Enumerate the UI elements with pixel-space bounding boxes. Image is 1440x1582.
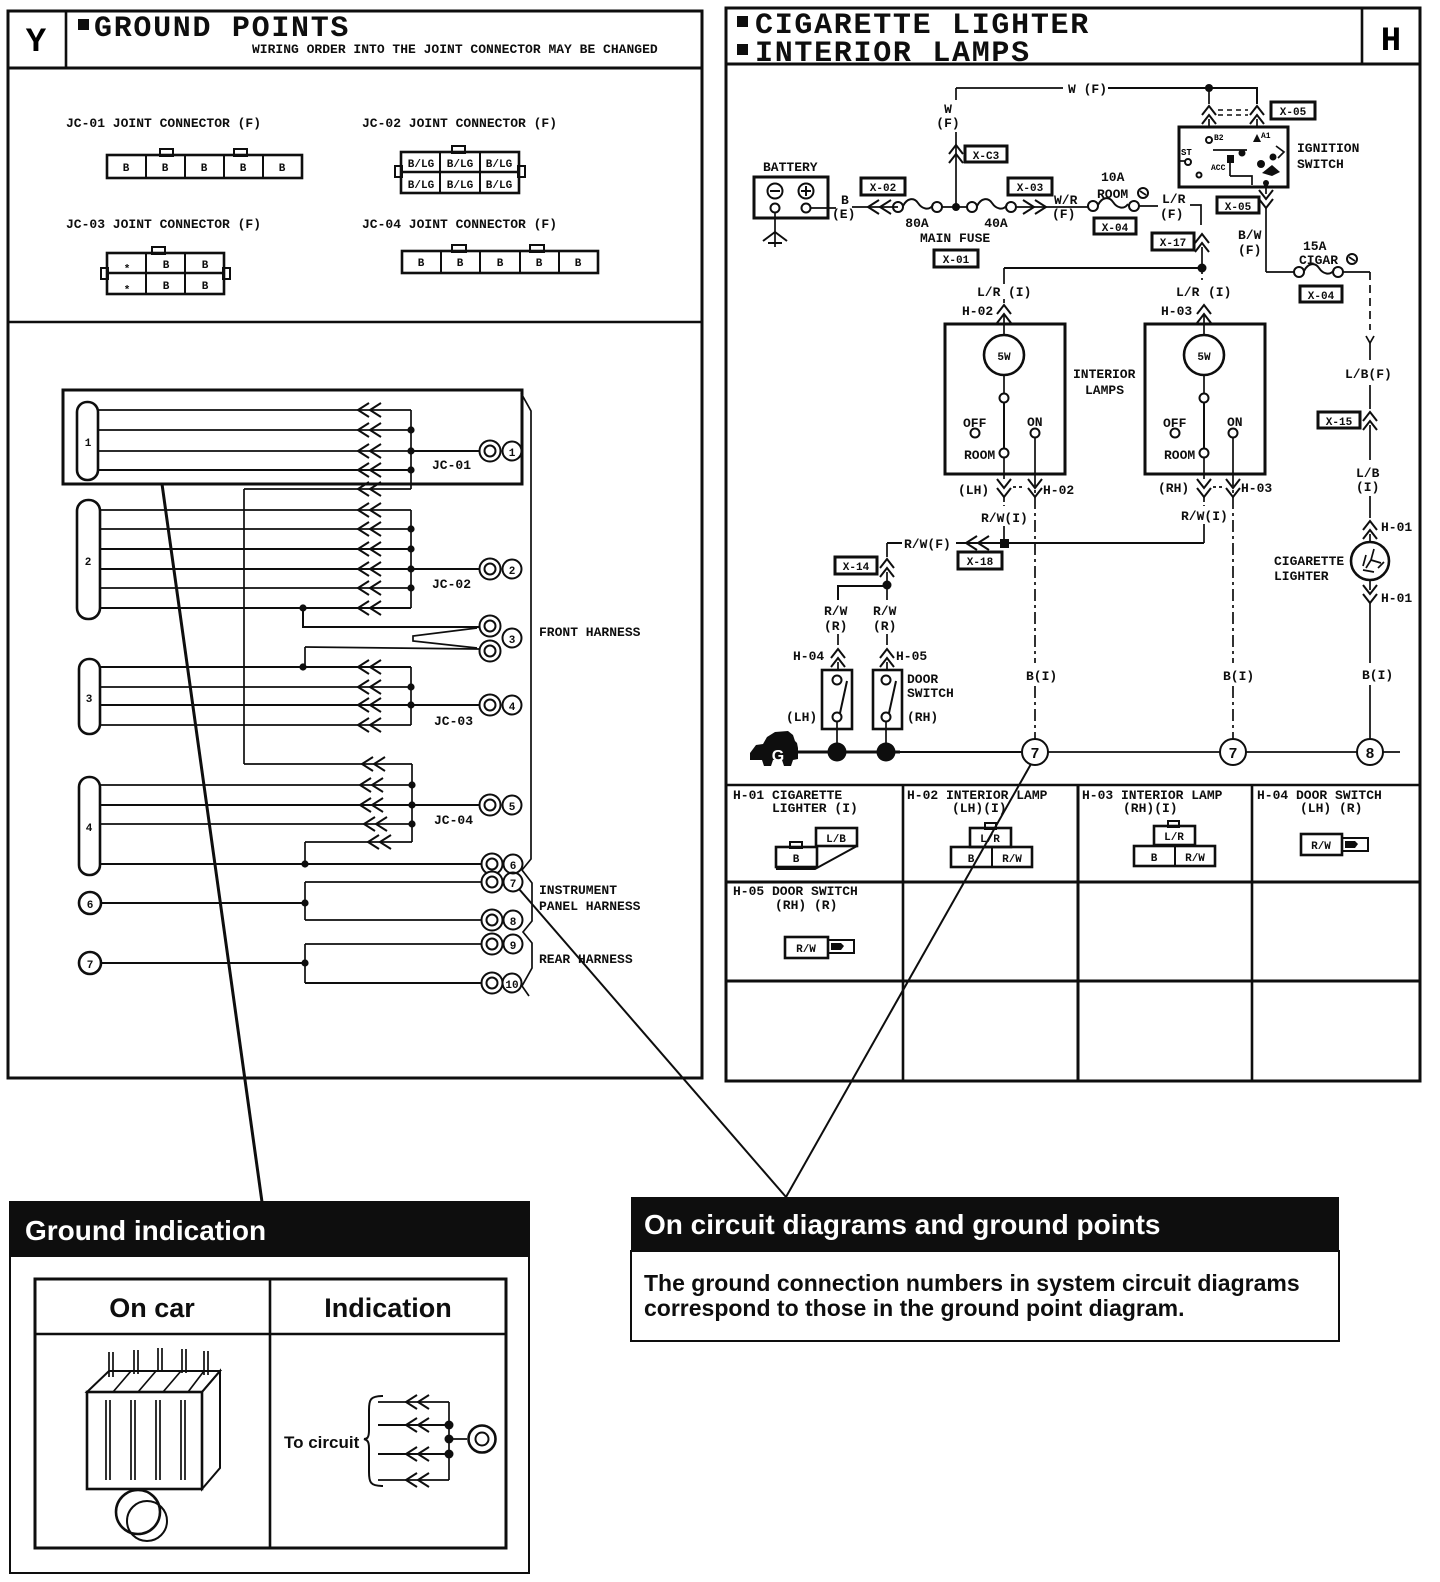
wire group1 row1 (98, 403, 411, 417)
svg-text:B: B (575, 258, 582, 270)
ground rail (797, 751, 1400, 754)
svg-text:FRONT HARNESS: FRONT HARNESS (539, 625, 641, 640)
wire L/B(F) cigarette feed (1345, 272, 1392, 409)
svg-text:4: 4 (509, 702, 516, 714)
wire B/W(F) from ignition (1238, 187, 1273, 272)
table cell H-03 (1082, 788, 1223, 816)
joint connector JC-03 (101, 247, 230, 297)
svg-text:*: * (124, 285, 131, 297)
wire group2 row2 (100, 522, 415, 536)
node door switch split (838, 581, 892, 601)
ground point 3 pair (480, 616, 522, 662)
joint connector JC-04 (402, 245, 598, 273)
on-car connector sketch (87, 1348, 220, 1541)
connector label X-18 (958, 552, 1002, 569)
wire group2 row3 (100, 542, 415, 556)
svg-text:B(I): B(I) (1362, 668, 1393, 683)
callout line from ground 7 left (519, 889, 786, 1197)
callout line from circle 7 right (786, 764, 1031, 1197)
label JC-02 joint connector (362, 116, 557, 131)
svg-text:WIRING ORDER INTO THE JOINT CO: WIRING ORDER INTO THE JOINT CONNECTOR MA… (252, 42, 658, 57)
node main fuse junction (942, 203, 967, 211)
merge wedge node 3 (413, 628, 477, 648)
svg-text:SWITCH: SWITCH (1297, 157, 1344, 172)
svg-text:X-05: X-05 (1225, 202, 1252, 214)
pin view H-05 (785, 937, 854, 958)
ground point 9 (482, 934, 523, 955)
connector label X-01 (934, 250, 978, 267)
svg-text:B: B (418, 258, 425, 270)
svg-text:INTERIOR: INTERIOR (1073, 367, 1136, 382)
svg-text:LIGHTER: LIGHTER (1274, 569, 1329, 584)
svg-text:correspond to those in the gro: correspond to those in the ground point … (644, 1295, 1185, 1321)
junction group2 row6 (299, 604, 306, 611)
svg-text:INTERIOR LAMPS: INTERIOR LAMPS (755, 37, 1031, 71)
wire group4 row1 (100, 778, 416, 792)
interior lamp LH box (945, 324, 1065, 474)
ground note text (644, 1270, 1300, 1321)
svg-text:B/LG: B/LG (486, 180, 513, 192)
connector X-05 mating arrows (1202, 88, 1264, 127)
ground point 6 (482, 854, 523, 875)
ground point 4 (480, 695, 522, 716)
svg-text:B/LG: B/LG (408, 159, 435, 171)
svg-text:INSTRUMENT: INSTRUMENT (539, 883, 617, 898)
svg-text:3: 3 (86, 694, 93, 706)
svg-text:X-C3: X-C3 (973, 151, 1000, 163)
svg-text:R/W(F): R/W(F) (904, 537, 951, 552)
wire L/R(I) to lamp RH (1161, 268, 1231, 335)
svg-text:3: 3 (509, 635, 516, 647)
svg-text:L/R: L/R (1164, 832, 1184, 844)
wire group1 row4 (98, 463, 415, 477)
svg-text:IGNITION: IGNITION (1297, 141, 1359, 156)
svg-text:L/R: L/R (1162, 192, 1186, 207)
svg-text:L/B: L/B (1356, 466, 1380, 481)
svg-text:(F): (F) (1052, 207, 1075, 222)
svg-text:1: 1 (509, 448, 516, 460)
svg-text:R/W(I): R/W(I) (981, 511, 1028, 526)
label MAIN FUSE (920, 231, 990, 246)
svg-text:R/W: R/W (1002, 854, 1022, 866)
svg-text:A1: A1 (1261, 132, 1271, 141)
ground point 1 (480, 441, 522, 462)
node circle 7 lamp LH (1022, 739, 1048, 765)
svg-text:On car: On car (109, 1293, 195, 1323)
fuse 40A (967, 199, 1016, 231)
connector label X-C3 (965, 146, 1007, 163)
svg-text:5W: 5W (997, 352, 1011, 364)
pin view H-03 (1134, 821, 1215, 866)
label JC-01 joint connector (66, 116, 261, 131)
svg-text:B: B (240, 163, 247, 175)
svg-text:(R): (R) (824, 619, 847, 634)
wire to ground point 3a (303, 608, 479, 627)
svg-text:X-05: X-05 (1280, 107, 1307, 119)
svg-text:40A: 40A (984, 216, 1008, 231)
svg-text:B: B (279, 163, 286, 175)
wire to ground point 3b (305, 647, 479, 667)
wire group2 row5 (100, 581, 415, 595)
wire group4 row2 (100, 798, 416, 812)
connector label X-17 (1152, 233, 1194, 250)
cigarette lighter (1351, 542, 1389, 580)
label JC-03 (434, 714, 473, 729)
battery ground (763, 213, 787, 247)
on circuit diagrams box (631, 1197, 1339, 1341)
ignition switch SW1 (1179, 127, 1288, 187)
node door RH to rail (877, 743, 896, 762)
svg-text:PANEL HARNESS: PANEL HARNESS (539, 899, 641, 914)
svg-text:10: 10 (505, 980, 518, 992)
wire group2 row6 (100, 601, 411, 615)
label JC-03 joint connector (66, 217, 261, 232)
svg-text:L/R: L/R (977, 285, 1001, 300)
svg-text:15A: 15A (1303, 239, 1327, 254)
svg-text:(E): (E) (832, 207, 855, 222)
ground point 7 (482, 872, 523, 893)
svg-text:X-14: X-14 (843, 562, 870, 574)
wire group1 row3 (98, 444, 415, 458)
junction bus group1 (410, 410, 412, 489)
svg-text:2: 2 (85, 557, 92, 569)
table cell H-01 (733, 788, 858, 816)
svg-text:X-04: X-04 (1308, 291, 1335, 303)
lamp bulb RH 5W (1184, 335, 1224, 394)
svg-text:B: B (793, 854, 800, 866)
svg-text:X-03: X-03 (1017, 183, 1044, 195)
svg-text:ROOM: ROOM (964, 448, 995, 463)
connector pill 3 (79, 659, 100, 734)
svg-text:H-01: H-01 (1381, 591, 1412, 606)
svg-text:ON: ON (1227, 415, 1243, 430)
node door LH to rail (828, 743, 847, 762)
table cell H-05 (733, 884, 858, 913)
label JC-04 joint connector (362, 217, 557, 232)
ground indication box (10, 1202, 529, 1573)
label JC-01 (432, 458, 471, 473)
lamp switch RH (1163, 394, 1243, 464)
svg-text:L/R: L/R (980, 834, 1000, 846)
svg-text:B(I): B(I) (1026, 669, 1057, 684)
svg-text:W/R: W/R (1054, 193, 1078, 208)
wire row feed group4 (244, 757, 412, 771)
svg-text:ACC: ACC (1211, 164, 1226, 173)
svg-text:B: B (497, 258, 504, 270)
wire to ground point 1 (411, 450, 480, 452)
wire group2 row4 (100, 562, 415, 576)
label INSTRUMENT PANEL HARNESS (539, 883, 641, 914)
svg-text:MAIN FUSE: MAIN FUSE (920, 231, 990, 246)
wire L/R(F) (1139, 192, 1201, 225)
svg-text:ROOM: ROOM (1164, 448, 1195, 463)
svg-text:R/W: R/W (1311, 841, 1331, 853)
connector X-17 arrows (1195, 234, 1209, 268)
wire to ground point 10 (305, 982, 481, 984)
svg-text:B: B (163, 260, 170, 272)
svg-text:H-05: H-05 (896, 649, 927, 664)
svg-text:LAMPS: LAMPS (1085, 383, 1124, 398)
wire to ground point 9 (305, 943, 481, 945)
label JC-02 (432, 577, 471, 592)
svg-text:Y: Y (26, 24, 47, 62)
title GROUND POINTS (78, 12, 350, 46)
svg-text:(LH): (LH) (786, 710, 817, 725)
wire R/W(F) run (887, 536, 1204, 552)
lamp bulb LH 5W (984, 335, 1024, 394)
connector label X-05 top (1271, 102, 1315, 119)
ground point 10 (482, 973, 522, 994)
svg-text:B: B (163, 281, 170, 293)
connector label X-04 cigar (1300, 286, 1342, 303)
svg-text:B: B (841, 193, 849, 208)
connector pill 2 (77, 500, 100, 619)
connector X-14 arrows (880, 543, 894, 585)
node circle 7 lamp RH (1220, 739, 1246, 765)
svg-text:7: 7 (510, 879, 517, 891)
fuse 80A (893, 199, 942, 231)
svg-text:X-04: X-04 (1102, 223, 1129, 235)
svg-text:(I): (I) (1208, 285, 1231, 300)
joint connector JC-01 (107, 149, 302, 178)
wire R/W(R) right (873, 585, 927, 670)
svg-text:5: 5 (509, 802, 516, 814)
svg-text:X-18: X-18 (967, 557, 994, 569)
svg-text:LIGHTER (I): LIGHTER (I) (772, 801, 858, 816)
wire lamp RH on lead B(I) (1223, 438, 1254, 739)
wire group4 row3 (100, 817, 416, 831)
svg-text:JC-02: JC-02 (432, 577, 471, 592)
wire R/W(R) left (793, 604, 848, 670)
wire group1 row2 (98, 423, 415, 437)
wire W(F) top run (956, 82, 1257, 104)
svg-text:Ground indication: Ground indication (25, 1215, 266, 1246)
svg-text:To circuit: To circuit (284, 1433, 360, 1452)
svg-text:(F): (F) (1160, 207, 1183, 222)
battery B1 (754, 177, 828, 218)
svg-text:7: 7 (87, 960, 94, 972)
svg-text:(LH): (LH) (958, 483, 989, 498)
wire B(I) lighter (1362, 668, 1393, 739)
wire L/B(I) (1356, 466, 1380, 518)
interior lamp RH box (1145, 324, 1265, 474)
svg-text:GROUND POINTS: GROUND POINTS (94, 12, 350, 46)
label DOOR SWITCH (907, 672, 954, 725)
joint connector JC-02 (395, 146, 525, 193)
harness boundary outline (521, 393, 532, 996)
svg-text:B2: B2 (1214, 134, 1224, 143)
svg-text:JC-02 JOINT CONNECTOR (F): JC-02 JOINT CONNECTOR (F) (362, 116, 557, 131)
door switch LH (822, 670, 852, 743)
wire group3 row1 (100, 660, 411, 674)
svg-text:10A: 10A (1101, 170, 1125, 185)
svg-text:B(I): B(I) (1223, 669, 1254, 684)
wire to ground point 2 (411, 568, 480, 570)
svg-text:R/W(I): R/W(I) (1181, 509, 1228, 524)
ground point 5 (480, 795, 522, 816)
callout line to Ground indication (162, 484, 262, 1202)
svg-text:The ground connection numbers: The ground connection numbers in system … (644, 1270, 1300, 1296)
svg-text:*: * (124, 264, 131, 276)
svg-text:DOOR: DOOR (907, 672, 938, 687)
svg-text:On circuit diagrams and ground: On circuit diagrams and ground points (644, 1209, 1160, 1240)
wire group3 row4 (100, 718, 411, 732)
label INTERIOR LAMPS (1073, 367, 1136, 398)
svg-text:7: 7 (1030, 746, 1039, 763)
svg-text:B: B (202, 260, 209, 272)
fuse 15A CIGAR (1266, 239, 1370, 277)
svg-text:H-03: H-03 (1241, 481, 1272, 496)
lamp switch LH (963, 394, 1043, 464)
left panel frame (8, 11, 702, 1078)
svg-text:H-05 DOOR SWITCH: H-05 DOOR SWITCH (733, 884, 858, 899)
title INTERIOR LAMPS (737, 37, 1031, 71)
connector pill 4 (79, 777, 100, 875)
connector X-15 (1318, 412, 1377, 460)
svg-text:B: B (202, 281, 209, 293)
pin view H-04 (1301, 834, 1368, 855)
right panel frame (726, 8, 1420, 1081)
svg-text:B: B (162, 163, 169, 175)
junction bus group4 (411, 764, 413, 842)
svg-text:X-02: X-02 (870, 183, 896, 195)
svg-text:B/LG: B/LG (447, 180, 474, 192)
pin view H-02 (951, 823, 1032, 867)
svg-text:B/LG: B/LG (408, 180, 435, 192)
pin view H-01 (776, 828, 857, 869)
wire to ground point 6 (100, 860, 481, 867)
wire from circle 6 (101, 882, 309, 920)
svg-text:(RH): (RH) (1158, 481, 1189, 496)
svg-text:X-17: X-17 (1160, 238, 1186, 250)
svg-text:JC-01 JOINT CONNECTOR (F): JC-01 JOINT CONNECTOR (F) (66, 116, 261, 131)
ground point 8 (482, 910, 523, 931)
label door switch LH (786, 710, 817, 725)
svg-text:(F): (F) (1238, 243, 1261, 258)
svg-text:L/B(F): L/B(F) (1345, 367, 1392, 382)
svg-text:80A: 80A (905, 216, 929, 231)
svg-text:H-01: H-01 (1381, 520, 1412, 535)
wire to ground point 4 (411, 704, 480, 706)
wire row below box1 (244, 482, 411, 496)
panel index letter Y (26, 24, 47, 62)
svg-text:JC-04 JOINT CONNECTOR (F): JC-04 JOINT CONNECTOR (F) (362, 217, 557, 232)
svg-text:(RH)(I): (RH)(I) (1123, 801, 1178, 816)
wire W(F) riser (936, 88, 963, 207)
svg-text:H: H (1381, 23, 1401, 61)
label CIGARETTE LIGHTER (1274, 554, 1344, 584)
JC-01 group box (63, 390, 522, 484)
svg-text:ROOM: ROOM (1097, 187, 1128, 202)
svg-text:JC-04: JC-04 (434, 813, 473, 828)
wire to ground point 7 (305, 881, 481, 883)
svg-text:(LH) (R): (LH) (R) (1300, 801, 1362, 816)
svg-text:(I): (I) (1008, 285, 1031, 300)
wire from circle 7 (101, 944, 309, 983)
wire lamp LH on lead B(I) (1026, 438, 1057, 739)
connector circle 6 (79, 892, 101, 914)
svg-text:B/LG: B/LG (486, 159, 513, 171)
wire to ground point 5 (412, 804, 480, 806)
svg-text:H-02: H-02 (1043, 483, 1074, 498)
node circle 8 lighter (1357, 739, 1383, 765)
wire lamp RH room lead (1158, 458, 1272, 543)
wire group4 row4 return (305, 835, 412, 864)
svg-text:ST: ST (1181, 148, 1192, 158)
wire group2 row1 (100, 503, 411, 517)
svg-text:Indication: Indication (324, 1293, 452, 1323)
svg-text:JC-01: JC-01 (432, 458, 471, 473)
ground symbol G car (750, 731, 798, 766)
connector label X-03 (1008, 178, 1052, 195)
label REAR HARNESS (539, 952, 633, 967)
node lamp feed junction (1004, 264, 1207, 304)
wire lamp LH room lead (958, 458, 1074, 543)
junction bus group2 (410, 510, 412, 608)
svg-text:2: 2 (509, 566, 516, 578)
svg-text:W (F): W (F) (1068, 82, 1107, 97)
svg-text:JC-03 JOINT CONNECTOR (F): JC-03 JOINT CONNECTOR (F) (66, 217, 261, 232)
svg-text:(I): (I) (1356, 480, 1379, 495)
svg-text:8: 8 (510, 917, 517, 929)
svg-text:9: 9 (510, 941, 517, 953)
svg-text:8: 8 (1365, 746, 1374, 763)
svg-text:B: B (201, 163, 208, 175)
svg-text:6: 6 (510, 861, 517, 873)
subtitle (252, 42, 658, 57)
svg-text:B/LG: B/LG (447, 159, 474, 171)
svg-text:7: 7 (1228, 746, 1237, 763)
svg-text:R/W: R/W (1185, 853, 1205, 865)
svg-text:B/W: B/W (1238, 228, 1262, 243)
connector H-01 upper (1363, 520, 1412, 542)
svg-text:X-15: X-15 (1326, 417, 1353, 429)
connector H-01 lower (1363, 580, 1412, 663)
svg-text:X-01: X-01 (943, 255, 970, 267)
svg-text:B: B (968, 854, 975, 866)
svg-text:B: B (1151, 853, 1158, 865)
svg-text:(RH) (R): (RH) (R) (775, 898, 837, 913)
svg-text:SWITCH: SWITCH (907, 686, 954, 701)
svg-text:R/W: R/W (796, 944, 816, 956)
table cell H-04 (1257, 788, 1382, 816)
svg-text:1: 1 (85, 438, 92, 450)
wire to ground point 8 (305, 919, 481, 921)
svg-text:G: G (772, 748, 784, 765)
svg-text:(F): (F) (936, 116, 959, 131)
connector label X-14 (835, 557, 877, 574)
svg-text:R/W: R/W (873, 604, 897, 619)
connector table grid (726, 785, 1420, 1081)
panel index letter H (1381, 23, 1401, 61)
svg-text:(R): (R) (873, 619, 896, 634)
svg-text:H-04: H-04 (793, 649, 824, 664)
svg-text:B: B (457, 258, 464, 270)
svg-text:(RH): (RH) (907, 710, 938, 725)
wire vertical feed left (243, 489, 245, 764)
connector label X-04 room (1094, 218, 1136, 235)
svg-text:R/W: R/W (824, 604, 848, 619)
svg-text:L/B: L/B (826, 834, 846, 846)
indication sketch (284, 1395, 496, 1487)
wire L/R(I) to lamp LH (962, 285, 1031, 335)
connector pill 1 (77, 402, 98, 480)
title CIGARETTE LIGHTER (737, 9, 1090, 43)
svg-text:5W: 5W (1197, 352, 1211, 364)
svg-text:BATTERY: BATTERY (763, 160, 818, 175)
svg-text:B: B (536, 258, 543, 270)
label FRONT HARNESS (539, 625, 641, 640)
